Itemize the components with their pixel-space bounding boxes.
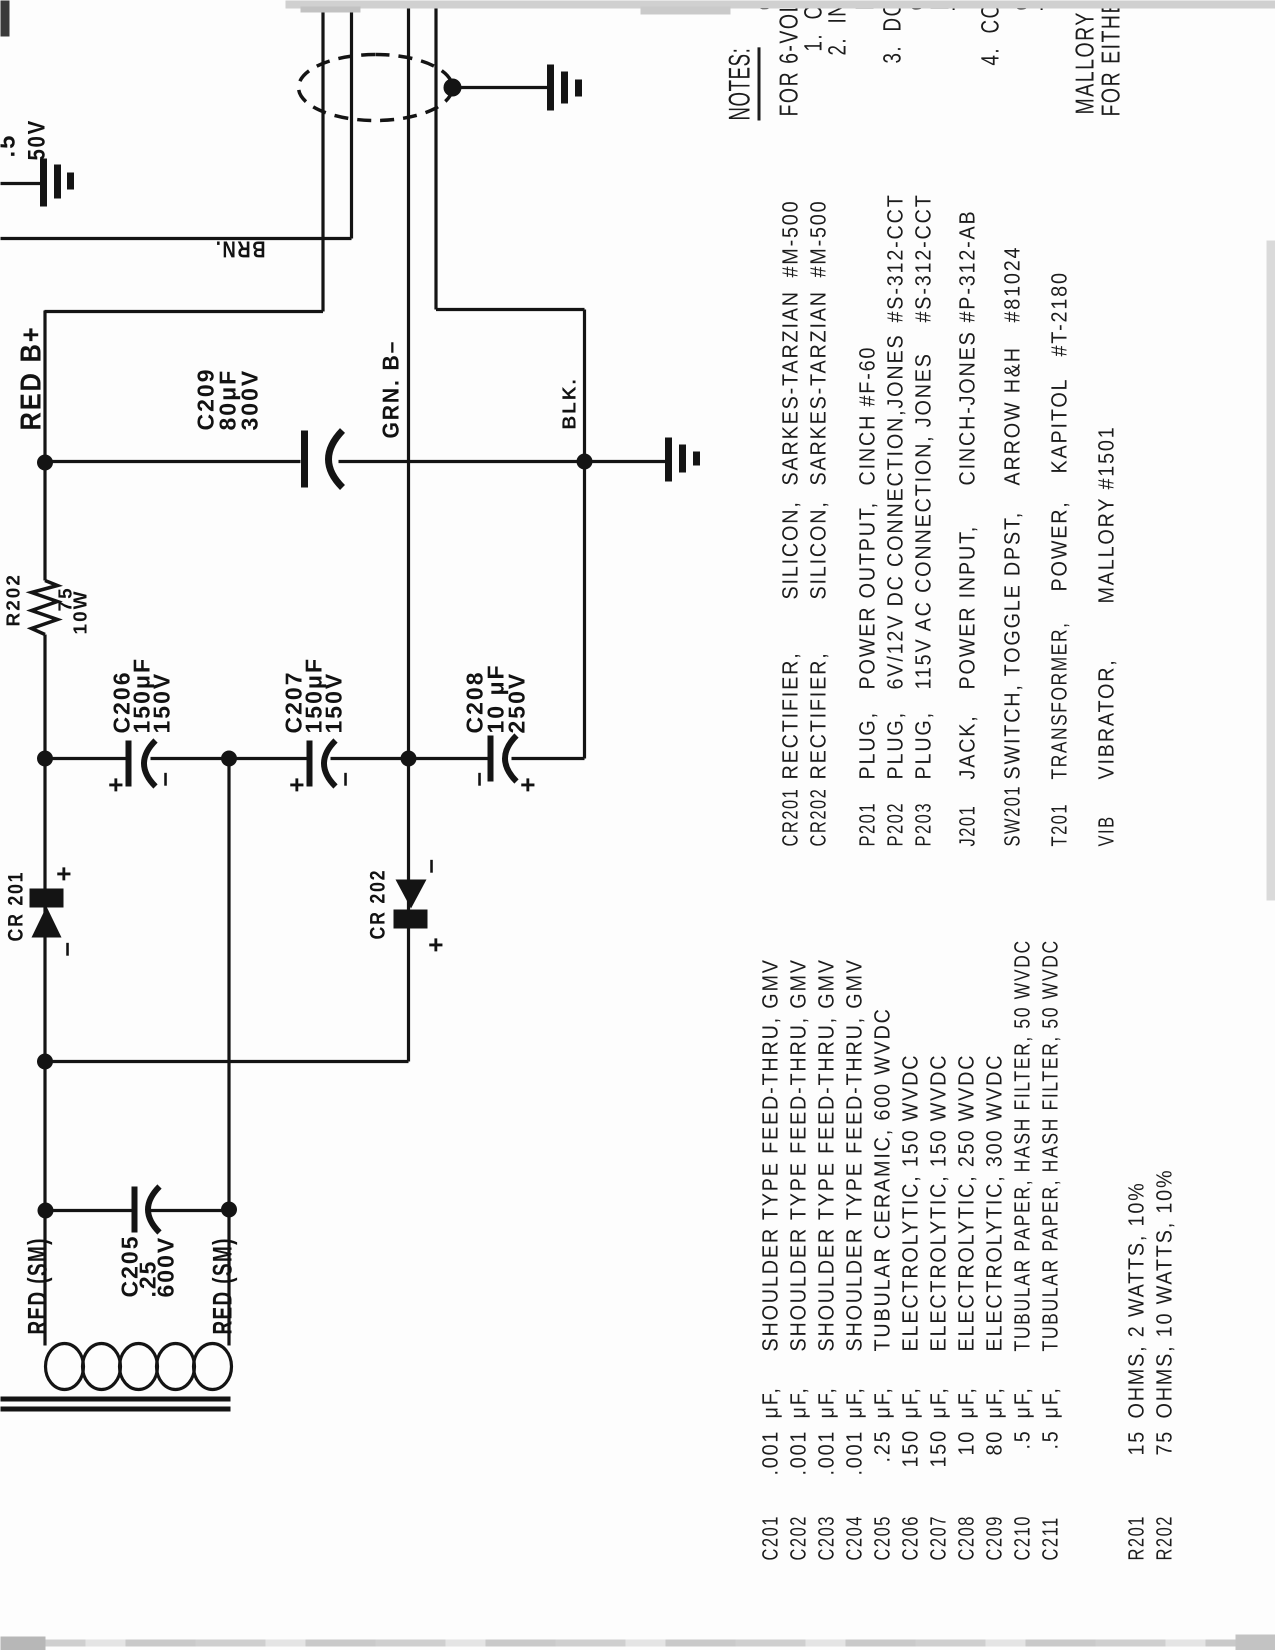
label C206 value [111, 657, 171, 734]
scan edge right [285, 0, 1275, 8]
label C206 plus [100, 775, 131, 792]
transformer T201 core [0, 1399, 230, 1409]
wire top wire 4 to BLK [436, 0, 585, 460]
capacitor C209 plates [301, 430, 308, 487]
label C206 minus [148, 770, 179, 786]
note item 2 [825, 1, 850, 55]
notes heading [725, 47, 760, 120]
label CR202 minus [414, 857, 445, 873]
capacitor C208 plates [487, 735, 493, 781]
label C209 value [194, 367, 260, 430]
wire GRN B- [44, 0, 408, 1061]
label CR201 minus [50, 940, 81, 956]
wire C205 bus [45, 1208, 228, 1211]
ground top-left [43, 158, 70, 206]
transformer T201 winding [45, 1343, 231, 1389]
wire caps bus [44, 756, 584, 759]
wire top wire 2 BRN [0, 0, 351, 238]
diode CR201 [29, 888, 63, 937]
label RED (SM) upper [22, 1237, 53, 1334]
parts list capacitors [759, 1515, 781, 1560]
label CR 202 [366, 868, 390, 939]
wire C209 bus [44, 459, 667, 462]
wire top-left ground stem [0, 181, 43, 184]
scan edge bottom [1266, 240, 1275, 900]
label .5 [0, 133, 21, 157]
ground cable [550, 64, 578, 110]
wire cable ground stem [452, 85, 549, 88]
note item 1 [801, 0, 826, 51]
ground B- [668, 437, 696, 481]
label C208 value [464, 663, 527, 733]
note mallory [1071, 0, 1097, 114]
label R202 value [58, 566, 88, 611]
label BLK. [559, 377, 581, 429]
wire BLK segment [582, 460, 585, 758]
wire lower link [227, 758, 230, 1345]
label C208 minus [462, 770, 493, 786]
capacitor C206 plates [125, 740, 131, 786]
label C205 value [120, 1234, 174, 1297]
label BRN. [214, 235, 265, 262]
label CR202 plus [420, 935, 451, 952]
capacitor C205 plates [131, 1186, 137, 1232]
label C207 plus [281, 775, 312, 792]
label CR201 plus [48, 864, 79, 881]
parts list components [779, 787, 801, 846]
label R202 [3, 573, 25, 626]
label GRN. B- [377, 339, 404, 438]
scan edge left [0, 1639, 1275, 1646]
label RED B+ [15, 325, 48, 430]
note item 4 [978, 0, 1003, 65]
note item 3 [880, 0, 905, 63]
wire top wire 1 [321, 0, 324, 311]
parts list resistors [1125, 1515, 1147, 1560]
label 50V [23, 119, 51, 160]
label C207 minus [328, 770, 359, 786]
diode CR202 [393, 879, 427, 928]
wire B+ rail [43, 310, 46, 1345]
label C207 value [283, 657, 343, 734]
wire corner to top wire [44, 309, 323, 312]
note line for 6-volt [775, 0, 801, 116]
cable ellipse [298, 54, 452, 120]
capacitor C207 plates [306, 740, 312, 786]
note cut letters [751, 0, 777, 10]
label CR 201 [4, 870, 28, 941]
label C208 plus [512, 775, 543, 792]
resistor R202 [31, 580, 57, 634]
note for either [1097, 0, 1123, 116]
corner mark [0, 0, 9, 36]
label RED (SM) lower [207, 1237, 238, 1334]
